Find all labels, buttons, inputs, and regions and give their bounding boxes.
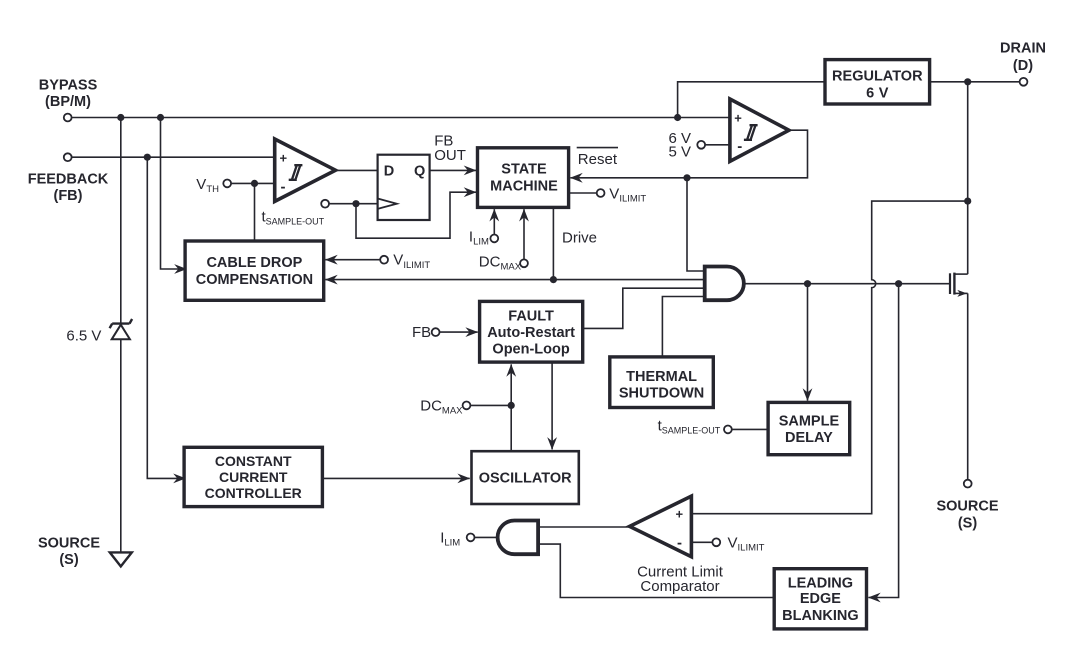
svg-text:Open-Loop: Open-Loop xyxy=(492,342,569,358)
box STATE MACHINE xyxy=(478,148,569,208)
wire ILIM circle to small AND gate output xyxy=(475,536,498,538)
wire drain rail to DRAIN terminal xyxy=(968,81,1020,83)
label DRAIN (D) xyxy=(1000,41,1046,75)
svg-text:OUT: OUT xyxy=(434,147,466,164)
box LEADING EDGE BLANKING xyxy=(774,569,866,629)
terminal VILIMIT circle (cable drop) xyxy=(380,256,388,264)
wire ILIM terminal up into STATE MACHINE xyxy=(493,209,495,234)
junction dot gate-sampledelay xyxy=(804,280,811,287)
svg-text:CURRENT: CURRENT xyxy=(219,469,288,485)
svg-text:5 V: 5 V xyxy=(668,144,691,161)
wire long drive rail into CABLE DROP COMPENSATION xyxy=(325,279,704,281)
svg-text:SAMPLE: SAMPLE xyxy=(779,414,840,430)
box OSCILLATOR xyxy=(472,451,579,504)
junction dot gate-LEB xyxy=(895,280,902,287)
wire drain rail down to MOSFET drain xyxy=(967,82,969,274)
label Current Limit Comparator xyxy=(637,564,724,596)
junction dot drive rail xyxy=(550,276,557,283)
svg-text:(BP/M): (BP/M) xyxy=(45,94,91,110)
junction dot bypass-zener xyxy=(117,114,124,121)
svg-text:CABLE DROP: CABLE DROP xyxy=(206,255,302,271)
terminal ILIM circle (current limit AND) xyxy=(467,534,475,542)
svg-text:Drive: Drive xyxy=(562,229,597,246)
wire VILIMIT circle to current limit comparator - input xyxy=(691,541,712,543)
svg-text:(S): (S) xyxy=(59,552,79,568)
wire zener to source ground arrow xyxy=(120,340,122,552)
op-amp FB comparator with hysteresis xyxy=(275,139,336,201)
svg-text:ILIM: ILIM xyxy=(440,529,460,548)
terminal DCMAX circle (state machine) xyxy=(520,259,528,267)
wire LEADING EDGE BLANKING output to small AND gate input B xyxy=(538,544,775,597)
wire 6V/5V reference circle to comparator - input xyxy=(705,144,730,146)
svg-text:SOURCE: SOURCE xyxy=(936,499,998,515)
label Reset with overline xyxy=(577,148,618,169)
svg-text:Comparator: Comparator xyxy=(640,578,719,595)
svg-text:BLANKING: BLANKING xyxy=(782,608,859,624)
svg-text:tSAMPLE-OUT: tSAMPLE-OUT xyxy=(262,209,325,227)
terminal VILIMIT circle (current limit comparator) xyxy=(712,538,720,546)
svg-text:FB: FB xyxy=(412,324,431,341)
wire STATE MACHINE VILIMIT output xyxy=(569,192,597,194)
svg-text:DRAIN: DRAIN xyxy=(1000,41,1046,57)
terminal DCMAX circle (oscillator) xyxy=(463,402,471,410)
wire FAULT bottom down into OSCILLATOR xyxy=(551,363,553,450)
ground source arrow xyxy=(110,552,132,566)
wire MOSFET source down to SOURCE terminal xyxy=(967,293,969,479)
wire FB comparator output to D input xyxy=(336,169,378,171)
svg-text:EDGE: EDGE xyxy=(800,591,841,607)
label BYPASS (BP/M) xyxy=(39,77,98,110)
svg-text:DELAY: DELAY xyxy=(785,430,833,446)
wire DCMAX junction down to OSCILLATOR top xyxy=(510,405,512,451)
svg-text:ILIM: ILIM xyxy=(469,229,489,248)
svg-text:SHUTDOWN: SHUTDOWN xyxy=(619,386,704,402)
svg-text:(D): (D) xyxy=(1013,58,1033,74)
wire flip-flop Q output into STATE MACHINE xyxy=(430,169,476,171)
svg-text:DCMAX: DCMAX xyxy=(420,397,463,416)
svg-text:6.5 V: 6.5 V xyxy=(66,327,101,344)
svg-text:LEADING: LEADING xyxy=(788,575,853,591)
svg-text:VILIMIT: VILIMIT xyxy=(728,534,765,553)
svg-text:+: + xyxy=(734,110,742,125)
terminal tSAMPLE-OUT circle (sample delay) xyxy=(724,426,732,434)
wire DCMAX junction up into FAULT block xyxy=(510,364,512,405)
and-gate U3 current limit AND (mirrored) xyxy=(498,521,538,555)
wire clock junction into STATE MACHINE second input xyxy=(356,192,476,238)
wire VILIMIT circle into CABLE DROP COMPENSATION xyxy=(325,259,380,261)
junction dot clock line xyxy=(352,200,359,207)
terminal clock sample circle xyxy=(321,200,329,208)
svg-text:-: - xyxy=(737,138,742,155)
wire gate line junction down into LEADING EDGE BLANKING xyxy=(868,284,898,598)
wire clock terminal to flip-flop clock input xyxy=(329,203,378,205)
svg-text:VILIMIT: VILIMIT xyxy=(393,252,430,271)
wire current limit comparator output to small AND gate input A xyxy=(538,526,630,528)
terminal DRAIN pin circle xyxy=(1020,78,1028,86)
junction dot DCMAX-oscillator xyxy=(508,402,515,409)
wire AND gate output to MOSFET gate xyxy=(744,283,949,285)
svg-text:FEEDBACK: FEEDBACK xyxy=(28,172,109,188)
wire zener branch from BYPASS rail xyxy=(120,118,122,324)
svg-text:COMPENSATION: COMPENSATION xyxy=(196,272,313,288)
junction dot feedback-ccc xyxy=(144,154,151,161)
box THERMAL SHUTDOWN xyxy=(610,357,714,408)
svg-text:STATE: STATE xyxy=(501,162,547,178)
wire BYPASS rail to 6V/5V comparator + input xyxy=(72,117,730,119)
wire drain junction to current limit comparator + input with hop xyxy=(691,201,967,514)
svg-text:-: - xyxy=(281,179,286,196)
label SOURCE (S) left xyxy=(38,536,100,569)
svg-text:CONTROLLER: CONTROLLER xyxy=(205,485,302,501)
terminal VTH circle xyxy=(223,180,231,188)
svg-text:THERMAL: THERMAL xyxy=(626,369,697,385)
wire CONSTANT CURRENT CONTROLLER to OSCILLATOR xyxy=(322,477,469,479)
wire DCMAX terminal up into STATE MACHINE xyxy=(523,209,525,259)
wire DCMAX circle to oscillator junction xyxy=(470,404,511,406)
wire VTH junction down to CABLE DROP COMPENSATION top xyxy=(254,183,256,241)
junction dot reset line xyxy=(683,174,690,181)
junction dot drain branch xyxy=(964,198,971,205)
junction dot VTH line xyxy=(251,180,258,187)
svg-text:MACHINE: MACHINE xyxy=(490,179,558,195)
wire 6V/5V comparator output to STATE MACHINE Reset input xyxy=(570,130,807,178)
svg-text:-: - xyxy=(677,535,682,552)
box REGULATOR 6 V xyxy=(825,60,930,104)
flip-flop U1 D-Q latch xyxy=(378,155,430,220)
wire BYPASS rail junction up to REGULATOR input xyxy=(678,82,825,118)
svg-text:D: D xyxy=(384,164,394,180)
box SAMPLE DELAY xyxy=(768,402,850,454)
terminal 6V/5V reference circle xyxy=(697,141,705,149)
wire VTH to FB comparator - input xyxy=(231,182,275,184)
svg-text:+: + xyxy=(676,507,684,522)
svg-text:(FB): (FB) xyxy=(54,188,83,204)
wire tSAMPLE-OUT circle into SAMPLE DELAY xyxy=(732,428,768,430)
svg-text:DCMAX: DCMAX xyxy=(479,253,522,272)
box CABLE DROP COMPENSATION xyxy=(185,241,324,300)
wire THERMAL SHUTDOWN to AND gate input 4 xyxy=(662,297,704,357)
svg-text:Reset: Reset xyxy=(578,151,618,168)
wire gate line junction down into SAMPLE DELAY xyxy=(807,284,809,401)
wire FEEDBACK to FB comparator + input xyxy=(72,156,275,158)
wire FB circle into FAULT block xyxy=(440,331,478,333)
label FEEDBACK (FB) xyxy=(28,172,109,204)
terminal FEEDBACK pin circle xyxy=(64,153,72,161)
svg-text:FAULT: FAULT xyxy=(508,309,554,325)
wire REGULATOR output to drain rail xyxy=(930,81,968,83)
label 6 V / 5 V xyxy=(668,130,691,161)
svg-text:+: + xyxy=(280,151,288,166)
box FAULT Auto-Restart Open-Loop xyxy=(480,301,583,362)
transistor Q1 power MOSFET xyxy=(950,273,968,297)
wire FAULT output to AND gate input 3 xyxy=(583,288,705,328)
op-amp current limit comparator xyxy=(630,496,692,557)
svg-text:BYPASS: BYPASS xyxy=(39,77,98,93)
box CONSTANT CURRENT CONTROLLER xyxy=(184,447,322,506)
junction dot regulator-drain xyxy=(964,78,971,85)
svg-text:REGULATOR: REGULATOR xyxy=(832,68,923,84)
svg-text:SOURCE: SOURCE xyxy=(38,536,100,552)
and-gate U2 drive AND xyxy=(705,267,744,301)
terminal SOURCE pin circle (right) xyxy=(964,480,972,488)
zener diode VR1 6.5 V xyxy=(110,319,133,339)
svg-text:CONSTANT: CONSTANT xyxy=(215,453,292,469)
svg-text:OSCILLATOR: OSCILLATOR xyxy=(479,470,572,486)
wire Drive line from STATE MACHINE down to drive rail xyxy=(552,207,554,279)
terminal VILIMIT circle (state machine output) xyxy=(597,189,605,197)
label FB OUT xyxy=(434,133,466,164)
terminal ILIM circle (state machine) xyxy=(490,235,498,243)
terminal FB circle (fault) xyxy=(432,328,440,336)
svg-text:Q: Q xyxy=(414,164,425,180)
op-amp 6V/5V bypass comparator with hysteresis xyxy=(730,99,789,161)
terminal BYPASS pin circle xyxy=(64,114,72,122)
svg-text:tSAMPLE-OUT: tSAMPLE-OUT xyxy=(658,417,721,435)
label SOURCE (S) right xyxy=(936,499,998,532)
svg-text:(S): (S) xyxy=(958,516,978,532)
wire BYPASS branch into CABLE DROP COMPENSATION xyxy=(161,118,187,270)
svg-text:VTH: VTH xyxy=(196,176,219,195)
svg-text:Auto-Restart: Auto-Restart xyxy=(487,325,575,341)
junction dot bypass-regulator xyxy=(674,114,681,121)
wire FEEDBACK branch into CONSTANT CURRENT CONTROLLER xyxy=(147,157,185,478)
svg-text:VILIMIT: VILIMIT xyxy=(609,185,646,204)
junction dot bypass-cabledrop xyxy=(157,114,164,121)
wire reset junction down to AND gate input 1 xyxy=(687,178,705,271)
